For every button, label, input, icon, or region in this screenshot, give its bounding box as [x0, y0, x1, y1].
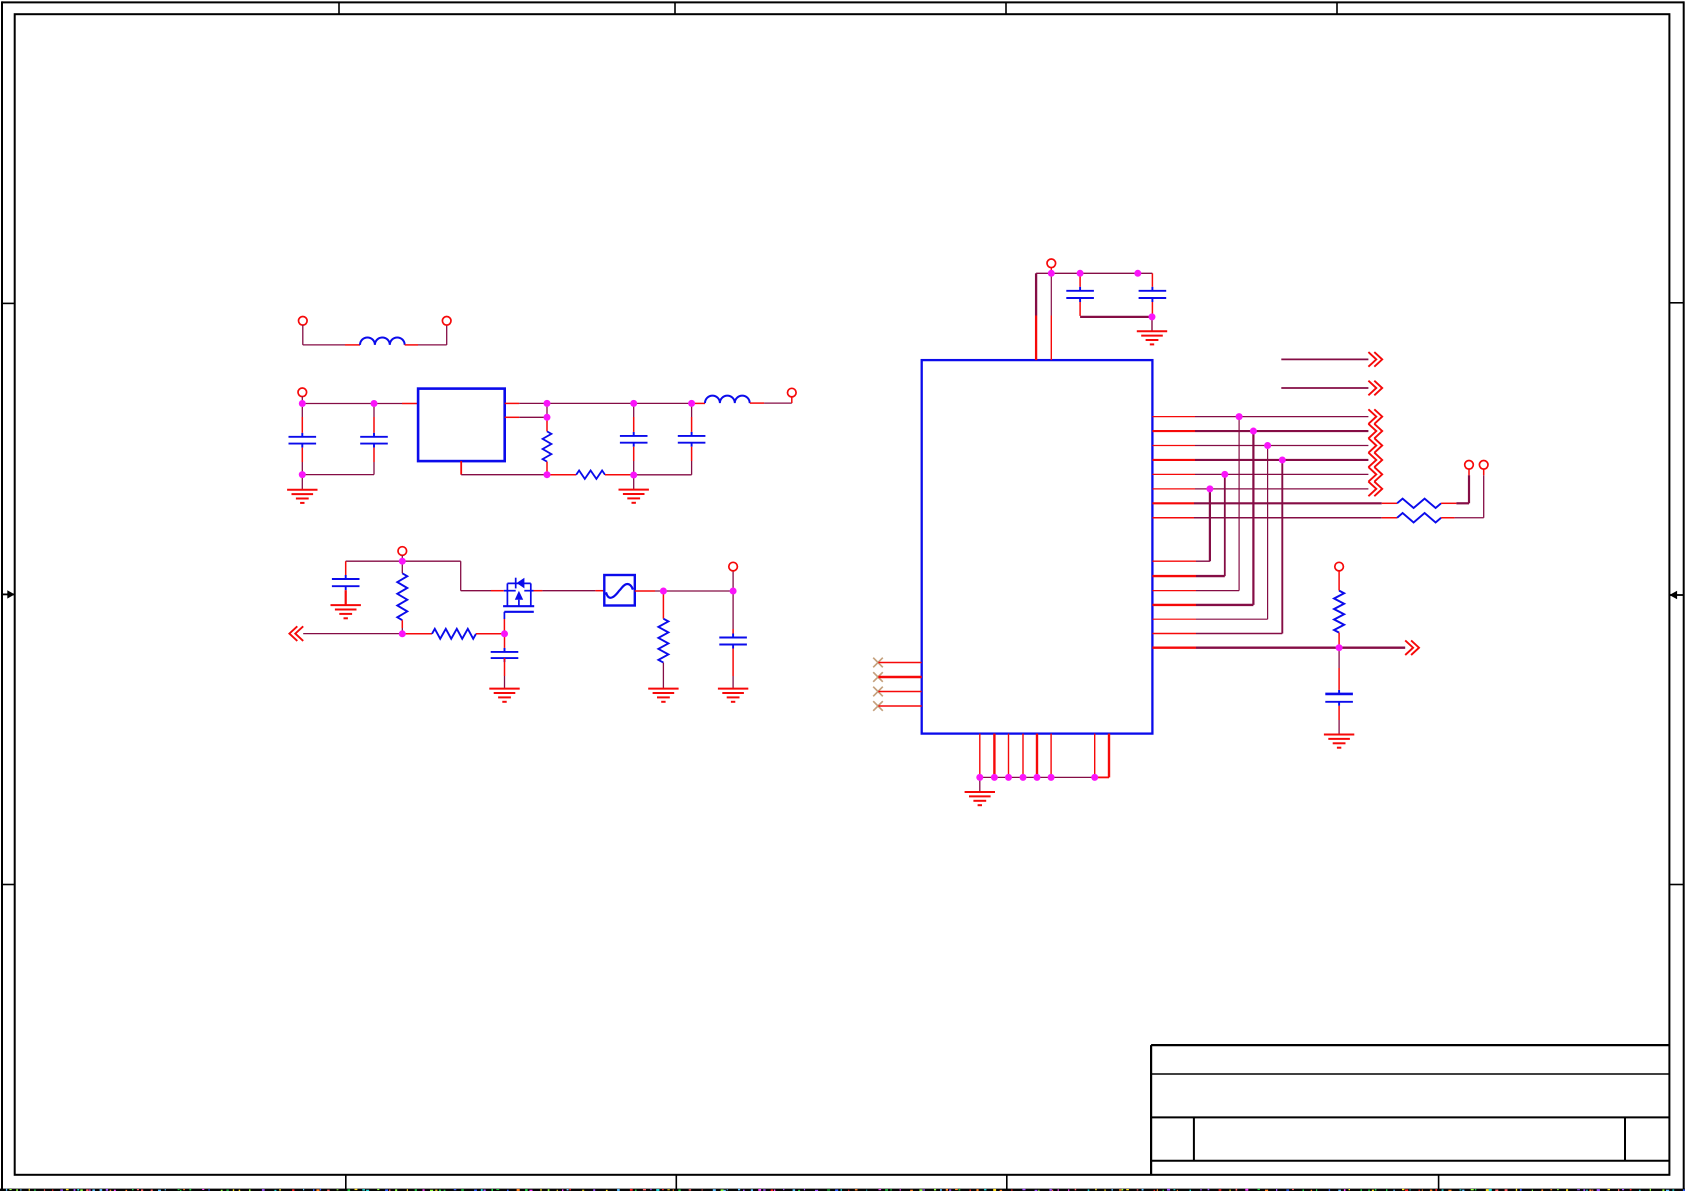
- wire IC lower pin 7: [1152, 647, 1196, 649]
- wire Q1 to FB1: [534, 590, 543, 592]
- wire input net: [301, 397, 303, 404]
- wire net out A: [1281, 358, 1368, 360]
- wire J5 down: [401, 555, 403, 561]
- wire C4 low: [691, 447, 693, 461]
- wire IC right pin 2: [1152, 430, 1195, 432]
- port J5: [398, 547, 407, 556]
- ground circuit2 right: [633, 475, 635, 490]
- x marker pin 1: [873, 658, 883, 668]
- resistor R8: [1338, 571, 1340, 591]
- chevron right pin 6: [1368, 482, 1382, 497]
- wire FB1 out: [635, 590, 655, 592]
- wire bottom gnd bus: [980, 776, 1095, 778]
- filter FB1: [604, 575, 635, 606]
- wire IC right pin 8: [1152, 517, 1194, 519]
- wire gate net: [303, 633, 402, 635]
- wire U1 out pin2: [505, 416, 520, 418]
- capacitor C4: [691, 432, 693, 436]
- port J4: [788, 388, 797, 397]
- wire L2 in: [692, 402, 705, 404]
- wire gnd bus circuit2: [302, 474, 374, 476]
- wire C3 low: [633, 447, 635, 461]
- border center arrow left: [2, 593, 15, 595]
- capacitor C7: [732, 634, 734, 638]
- wire vdd top: [1036, 272, 1152, 274]
- wire C8 low: [1079, 302, 1081, 316]
- resistor R1: [543, 431, 552, 461]
- title block: [1150, 1045, 1152, 1175]
- capacitor C1: [301, 433, 303, 437]
- border zone ticks top: [338, 2, 340, 14]
- wire cap gnd bus: [1080, 316, 1152, 318]
- border frame outer: [2, 1, 1684, 3]
- wire R7 to J9: [1441, 517, 1455, 519]
- wire L1 to J2: [405, 344, 418, 346]
- wire IC right pin 7: [1152, 502, 1194, 504]
- port J8: [1465, 461, 1474, 470]
- wire IC lower pin 5: [1152, 618, 1196, 620]
- wire IC lower pin 6: [1152, 633, 1196, 635]
- transistor Q1: [506, 583, 508, 606]
- ground circuit2 left: [301, 475, 303, 490]
- chevron right pin 2: [1368, 424, 1382, 439]
- capacitor C10: [1338, 690, 1340, 694]
- wire IC right pin 6: [1152, 488, 1195, 490]
- wire out bus: [547, 402, 692, 404]
- bottom text strip: [0, 1189, 1685, 1191]
- chevron right pin 3: [1368, 438, 1382, 453]
- resistor R5: [662, 591, 664, 619]
- x marker pin 3: [873, 687, 883, 697]
- junction dots IC bottom: [976, 774, 983, 781]
- ground C10: [1338, 706, 1340, 720]
- resistor R6: [1397, 499, 1441, 508]
- wire R2 right: [605, 474, 630, 476]
- wire R6 to J8: [1441, 502, 1456, 504]
- wire IC left pin 4: [878, 705, 921, 707]
- wire net out B: [1281, 387, 1368, 389]
- resistor R4: [432, 629, 476, 639]
- border center arrow right: [1669, 594, 1683, 596]
- wire C1 low: [301, 448, 303, 462]
- ground IC bottom: [979, 777, 981, 792]
- chevron out B: [1368, 381, 1382, 396]
- wire IC right pin 3: [1152, 445, 1195, 447]
- ground R5: [662, 663, 664, 689]
- wire IC left pin 3: [878, 691, 921, 693]
- wire top net circuit3: [346, 560, 461, 562]
- IC U2: [922, 360, 1153, 733]
- capacitor C6: [504, 648, 506, 652]
- wire R8 low: [1338, 633, 1340, 648]
- chevron right pin 4: [1368, 453, 1382, 468]
- wire R2 left: [547, 474, 576, 476]
- capacitor C3: [633, 432, 635, 436]
- border zone ticks left: [2, 302, 15, 304]
- chevron lower pin 7: [1405, 640, 1419, 655]
- wire IC lower pin 4: [1152, 604, 1196, 606]
- wire IC left pin 1: [878, 662, 921, 664]
- inductor L2: [705, 396, 750, 403]
- x marker pin 4: [873, 701, 883, 711]
- resistor R2: [576, 471, 605, 479]
- bus entry chevron: [289, 626, 303, 641]
- border zone ticks bottom: [345, 1175, 347, 1189]
- border zone ticks right: [1669, 302, 1683, 304]
- wire bus vertical 5: [1267, 446, 1269, 620]
- chevron right pin 1: [1368, 409, 1382, 424]
- x marker pin 2: [873, 672, 883, 682]
- port J10: [1335, 562, 1344, 571]
- wire bus vertical 6: [1281, 460, 1283, 634]
- port J7: [1047, 259, 1056, 268]
- wire J6 stub: [732, 571, 734, 591]
- wire bus vertical 1: [1209, 489, 1211, 561]
- wire IC lower pin 2: [1152, 575, 1196, 577]
- junction dots IC right: [1236, 413, 1243, 420]
- wire Q1 gate lead: [503, 619, 505, 634]
- inductor L1: [360, 337, 405, 344]
- wire bus vertical 4: [1252, 431, 1254, 605]
- chevron right pin 5: [1368, 467, 1382, 482]
- ground top caps: [1151, 317, 1153, 331]
- wire IC lower pin 3: [1152, 590, 1196, 592]
- resistor R7: [1397, 513, 1441, 523]
- wire IC lower pin 1: [1152, 560, 1196, 562]
- regulator U1: [418, 389, 505, 462]
- port J3: [298, 388, 307, 397]
- ground C7: [732, 649, 734, 677]
- capacitor C2: [373, 433, 375, 437]
- port J6: [729, 562, 738, 571]
- chevron out A: [1368, 352, 1382, 367]
- wire L2 out: [750, 402, 764, 404]
- junction dots circuit2: [299, 400, 306, 407]
- wire J7 stub: [1050, 268, 1052, 274]
- wire IC bottom pins: [979, 734, 981, 778]
- wire bus vertical 3: [1238, 417, 1240, 591]
- ground C6: [504, 658, 506, 676]
- capacitor C5: [345, 575, 347, 579]
- port J9: [1479, 461, 1488, 470]
- wire U1 out pin1: [505, 402, 520, 404]
- wire R1 low: [546, 462, 548, 475]
- wire bus vertical 2: [1224, 474, 1226, 576]
- capacitor C9: [1151, 287, 1153, 291]
- wire U1 gnd: [460, 461, 462, 475]
- port J2: [442, 317, 451, 326]
- port J1: [299, 317, 308, 326]
- junction dots circuit3: [399, 558, 406, 565]
- wire IC right pin 1: [1152, 416, 1195, 418]
- ground C5: [345, 590, 347, 605]
- resistor R3: [397, 573, 407, 620]
- junction dots IC top: [1048, 270, 1055, 277]
- wire IC right pin 4: [1152, 459, 1195, 461]
- capacitor C8: [1079, 287, 1081, 291]
- wire C9 low: [1151, 302, 1153, 317]
- wire IC right pin 5: [1152, 473, 1195, 475]
- wire R4 to gate: [476, 633, 505, 635]
- wire C2 low: [373, 448, 375, 462]
- wire IC left pin 2: [878, 676, 921, 679]
- wire fb vert: [546, 403, 548, 417]
- wire J1 to L1: [302, 325, 304, 345]
